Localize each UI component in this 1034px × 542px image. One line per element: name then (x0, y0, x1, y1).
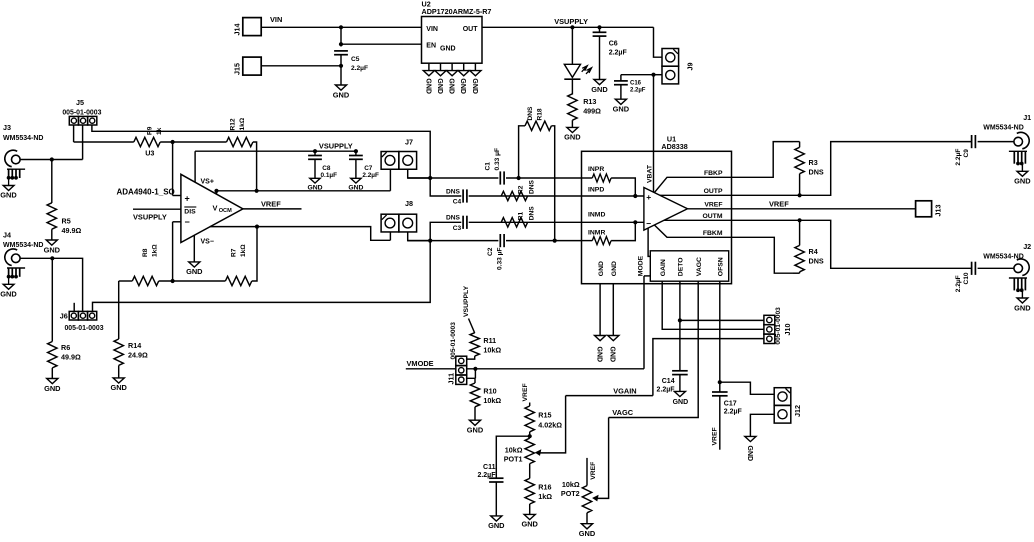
ground below C11 (491, 516, 502, 521)
wire GAIN to J10 pin2 (662, 281, 764, 329)
svg-text:R9: R9 (147, 126, 154, 135)
wire J9 pin2 to VBAT net (654, 74, 663, 76)
svg-text:INMD: INMD (588, 211, 605, 218)
connector J6 005-01-0003 (69, 311, 78, 320)
connector J13 (916, 201, 932, 217)
U1 pin VREF (688, 208, 732, 210)
wire MODE down to VMODE (643, 276, 645, 369)
svg-text:2.2µF: 2.2µF (477, 472, 496, 479)
capacitor C4 DNS (462, 189, 464, 202)
svg-text:MODE: MODE (638, 255, 645, 276)
svg-text:R1: R1 (517, 212, 524, 221)
svg-text:R4: R4 (809, 247, 818, 256)
svg-text:005-01-0003: 005-01-0003 (450, 322, 457, 360)
wire R12 to VOCM (253, 142, 257, 191)
svg-text:V: V (213, 203, 218, 212)
svg-text:J10: J10 (783, 324, 792, 336)
resistor R15 4.02kohm (529, 403, 531, 407)
svg-text:VREF: VREF (769, 200, 789, 209)
wire J7 pin1 to VOCM (389, 170, 391, 191)
wire VREF to J13 (732, 208, 916, 210)
svg-text:2.2µF: 2.2µF (955, 275, 962, 292)
U1 internal amp triangle (644, 188, 688, 231)
wire J4 to J6 (20, 258, 83, 311)
node R7/feedback junction (255, 225, 259, 229)
wire R7 to feedback node (252, 227, 257, 281)
svg-text:AD8338: AD8338 (661, 142, 687, 151)
VGA U1 AD8338 (582, 151, 732, 283)
node R18 left junction (517, 176, 521, 180)
node C7 junction (354, 149, 358, 153)
svg-text:J14: J14 (233, 24, 242, 36)
svg-text:R14: R14 (128, 341, 141, 350)
svg-text:R16: R16 (538, 482, 551, 491)
resistor R10 10kohm (470, 383, 479, 407)
node R18 right junction (553, 239, 557, 243)
connector J9 (662, 49, 679, 67)
svg-text:GND: GND (1014, 303, 1031, 312)
svg-text:C3: C3 (453, 225, 462, 232)
svg-text:VBAT: VBAT (646, 164, 653, 183)
wire VBAT down to U1 (653, 75, 655, 152)
svg-text:GND: GND (333, 90, 350, 99)
svg-text:GND: GND (673, 399, 689, 406)
capacitor C2 0.33uF (499, 234, 501, 247)
svg-text:C17: C17 (724, 400, 737, 407)
wire to op-amp +input (172, 142, 174, 196)
svg-text:1kΩ: 1kΩ (538, 492, 552, 501)
svg-text:R3: R3 (809, 158, 818, 167)
wire J5 pin2 to J3 line (82, 125, 84, 160)
svg-text:GND: GND (44, 384, 61, 393)
svg-text:VREF: VREF (704, 202, 722, 209)
connector J7 (381, 152, 399, 170)
svg-text:C2: C2 (487, 247, 494, 256)
resistor R1 DNS (501, 218, 527, 227)
svg-text:GND: GND (609, 347, 616, 363)
node VSUPPLY-C6 junction (597, 25, 601, 29)
svg-text:C9: C9 (963, 149, 970, 158)
wire VMODE line (406, 368, 457, 370)
node INMR select junction (428, 239, 432, 243)
svg-text:1k: 1k (156, 127, 163, 135)
svg-text:INMR: INMR (588, 230, 605, 237)
svg-text:2.2µF: 2.2µF (351, 65, 368, 72)
wire J8 pin2 to INMR (408, 232, 431, 240)
svg-text:0.33 µF: 0.33 µF (496, 248, 503, 271)
svg-text:DNS: DNS (527, 106, 534, 121)
node VMODE/R10 junction (473, 367, 477, 371)
node J3/R5 junction (50, 157, 54, 161)
svg-text:J13: J13 (934, 205, 943, 217)
U1 GND pin wires (599, 284, 601, 336)
ground below C7 (351, 178, 361, 183)
wire INPR line (408, 177, 499, 179)
svg-text:GND: GND (746, 446, 753, 462)
svg-text:10kΩ: 10kΩ (562, 480, 580, 489)
svg-text:VREF: VREF (712, 427, 719, 445)
svg-text:2.2µF: 2.2µF (657, 387, 676, 394)
svg-text:J2: J2 (1023, 242, 1031, 251)
svg-text:ADP1720ARMZ-5-R7: ADP1720ARMZ-5-R7 (422, 7, 492, 16)
ground below C16 (615, 99, 626, 104)
ground below R14 (113, 378, 124, 383)
wire OFSN down (719, 281, 721, 392)
svg-text:FBKP: FBKP (704, 170, 723, 177)
resistor R4 DNS (793, 272, 800, 274)
resistor R13 499ohm (568, 94, 577, 120)
svg-text:1kΩ: 1kΩ (239, 117, 246, 130)
regulator U2 ADP1720ARMZ-5-R7 (422, 17, 483, 64)
svg-text:C16: C16 (630, 81, 642, 87)
svg-text:GND: GND (596, 347, 603, 363)
svg-text:−: − (185, 217, 190, 227)
svg-text:GND: GND (579, 529, 596, 538)
svg-text:J5: J5 (76, 98, 84, 107)
svg-text:10kΩ: 10kΩ (483, 396, 501, 405)
svg-text:GND: GND (467, 426, 484, 435)
node DETO/J10 junction (678, 318, 682, 322)
connector J12 (774, 388, 791, 406)
capacitor C11 2.2uF (496, 436, 529, 478)
resistor R9 1k (U3) (134, 137, 160, 146)
svg-text:EN: EN (426, 43, 436, 50)
svg-text:49.9Ω: 49.9Ω (62, 226, 82, 235)
svg-text:U3: U3 (145, 148, 154, 157)
svg-text:C10: C10 (963, 272, 970, 284)
wire VREF output stub (243, 208, 302, 210)
node J9/C16/VBAT junction (651, 73, 655, 77)
svg-text:OUTP: OUTP (704, 188, 723, 195)
svg-text:INPR: INPR (588, 166, 604, 173)
svg-text:GND: GND (613, 105, 630, 114)
wire R9/R12 input line (74, 141, 134, 143)
svg-text:R13: R13 (583, 97, 596, 106)
op-amp U3 ADA4940-1_SO (181, 174, 243, 242)
svg-text:POT1: POT1 (504, 455, 523, 464)
svg-text:R18: R18 (536, 108, 543, 120)
wire OFSN to J12 pin1 (720, 382, 774, 394)
U1 pin VBAT (653, 151, 655, 192)
svg-text:GND: GND (591, 85, 608, 94)
svg-text:GND: GND (424, 78, 431, 94)
svg-text:005-01-0003: 005-01-0003 (64, 325, 103, 332)
svg-text:J9: J9 (686, 63, 695, 71)
svg-text:ADA4940-1_SO: ADA4940-1_SO (117, 187, 175, 196)
node -in junction (171, 279, 175, 283)
svg-text:2.2µF: 2.2µF (955, 149, 962, 166)
svg-text:DNS: DNS (529, 206, 536, 221)
svg-text:1kΩ: 1kΩ (151, 244, 158, 257)
capacitor C1 0.33uF (499, 171, 501, 184)
resistor R2 DNS (501, 191, 527, 200)
wire J8 pin1 to feedback (389, 232, 391, 240)
svg-text:C11: C11 (483, 464, 496, 471)
U1 pin OUTM (664, 219, 732, 221)
wire J5 pin1 to R9 (73, 125, 75, 142)
svg-text:005-01-0003: 005-01-0003 (775, 307, 782, 345)
svg-text:VIN: VIN (426, 26, 438, 33)
svg-text:GND: GND (0, 289, 17, 298)
svg-text:24.9Ω: 24.9Ω (128, 351, 148, 360)
potentiometer POT2 10kohm (586, 458, 588, 486)
svg-text:GND: GND (44, 245, 61, 254)
resistor R6 49.9ohm (51, 258, 53, 341)
svg-text:1kΩ: 1kΩ (240, 244, 247, 257)
connector J10 005-01-0003 (764, 315, 775, 324)
svg-text:OUT: OUT (463, 26, 479, 33)
svg-text:−: − (646, 218, 651, 228)
capacitor C3 DNS (462, 216, 464, 229)
svg-text:005-01-0003: 005-01-0003 (62, 109, 101, 116)
resistor R5 49.9ohm (51, 160, 53, 204)
wire J11 pin3 to R10 (467, 378, 475, 383)
svg-text:J8: J8 (405, 199, 413, 208)
svg-text:GND: GND (440, 46, 456, 53)
svg-text:2.2µF: 2.2µF (609, 50, 628, 57)
svg-text:VSUPPLY: VSUPPLY (554, 17, 588, 26)
ground below J12 (745, 436, 756, 441)
node VOCM pin (214, 189, 218, 193)
wire to J9 pin1 (654, 27, 663, 57)
node +in junction (171, 140, 175, 144)
wire DETO to J10 pin1 (680, 319, 764, 321)
resistor R18 DNS (519, 126, 525, 178)
wire J7 pin2 to INPR (408, 170, 431, 178)
svg-text:C1: C1 (485, 162, 492, 171)
wire -output feedback (210, 227, 391, 241)
svg-text:GND: GND (448, 78, 455, 94)
wire VOCM line (217, 190, 391, 192)
ground below C5 (335, 85, 346, 90)
svg-text:VS−: VS− (201, 239, 214, 246)
svg-text:R6: R6 (61, 343, 70, 352)
svg-text:DNS: DNS (809, 168, 824, 177)
svg-text:GND: GND (471, 78, 478, 94)
svg-text:WM5534-ND: WM5534-ND (3, 135, 43, 142)
svg-text:R15: R15 (538, 411, 551, 420)
svg-text:GND: GND (564, 133, 581, 142)
svg-text:VMODE: VMODE (407, 359, 434, 368)
resistor R11 10kohm (469, 319, 475, 334)
wire to op-amp -input (172, 222, 174, 281)
wire VSUPPLY from U2 OUT (482, 26, 654, 28)
resistor R8 1kohm (132, 276, 158, 285)
svg-text:VAGC: VAGC (696, 257, 703, 276)
svg-text:VAGC: VAGC (612, 408, 633, 417)
wire J15 to C5 (261, 65, 341, 67)
svg-text:0.1µF: 0.1µF (321, 172, 338, 179)
svg-text:GND: GND (521, 520, 538, 529)
wire VIN J14 to U2 (261, 26, 421, 28)
svg-text:R5: R5 (62, 217, 71, 226)
connector J5 005-01-0003 (69, 116, 78, 125)
capacitor C17 2.2uF (712, 391, 728, 393)
svg-text:C14: C14 (662, 378, 675, 385)
wire R8/R7 feedback line (119, 280, 133, 282)
svg-text:GND: GND (436, 78, 443, 94)
wire INMD line (430, 222, 461, 240)
svg-text:GND: GND (598, 261, 605, 276)
svg-text:J3: J3 (3, 123, 11, 132)
capacitor C14 2.2uF (672, 370, 688, 372)
capacitor C6 2.2uF (599, 27, 601, 32)
node C8 junction (313, 149, 317, 153)
svg-text:DNS: DNS (446, 188, 461, 195)
resistor R12 1kohm (227, 137, 253, 146)
wire INMR line (408, 240, 499, 242)
svg-text:GND: GND (0, 191, 17, 200)
node R15/POT1/C11 junction (528, 434, 532, 438)
wire OUTP to C9 (732, 142, 972, 196)
resistor R16 1kohm (529, 464, 531, 479)
capacitor C8 0.1uF (314, 151, 316, 155)
svg-text:+: + (185, 194, 190, 204)
svg-text:4.02kΩ: 4.02kΩ (538, 420, 562, 429)
svg-text:DETO: DETO (678, 257, 685, 276)
node R4/OUTM junction (798, 218, 802, 222)
svg-text:10kΩ: 10kΩ (483, 346, 501, 355)
ground below R10 (469, 420, 480, 425)
potentiometer POT1 10kohm (525, 438, 534, 463)
svg-text:C6: C6 (609, 41, 618, 48)
svg-text:J4: J4 (3, 231, 11, 240)
wire J12 pin2 to ground (750, 414, 774, 436)
ground below C14 (674, 391, 685, 396)
capacitor C10 2.2uF (971, 262, 973, 275)
svg-text:GND: GND (110, 383, 127, 392)
ground below POT2 (581, 524, 592, 529)
svg-text:J15: J15 (233, 63, 242, 75)
svg-text:R10: R10 (483, 386, 496, 395)
node OFSN/C17 junction (718, 380, 722, 384)
node EN junction (339, 42, 343, 46)
svg-text:VREF: VREF (522, 383, 529, 401)
svg-text:R7: R7 (230, 248, 237, 257)
svg-text:VIN: VIN (270, 15, 282, 24)
svg-text:DNS: DNS (809, 257, 824, 266)
svg-text:GAIN: GAIN (660, 259, 667, 276)
capacitor C9 2.2uF (971, 135, 973, 148)
connector J15 (243, 57, 261, 75)
svg-text:OFSN: OFSN (718, 257, 725, 276)
svg-text:DNS: DNS (446, 215, 461, 222)
svg-text:2.2µF: 2.2µF (362, 172, 379, 179)
svg-text:WM5534-ND: WM5534-ND (983, 125, 1023, 132)
wire VS+ to supply rail (194, 151, 196, 182)
connector J14 (243, 18, 261, 36)
svg-text:GND: GND (1014, 177, 1031, 186)
node VIN junction (339, 25, 343, 29)
wire J5 pin3 to INPR select (92, 125, 430, 178)
U1 pin FBKM (654, 225, 731, 237)
svg-text:DIS: DIS (184, 208, 196, 215)
capacitor C16 2.2uF (621, 74, 654, 76)
node INPR select junction (428, 176, 432, 180)
svg-text:R11: R11 (483, 336, 496, 345)
U1 pin OUTP (660, 194, 732, 196)
resistor R7 1kohm (225, 276, 251, 285)
ground below R13 (567, 127, 578, 132)
svg-text:J11: J11 (447, 373, 456, 385)
J6 pin1 stub (73, 303, 75, 312)
U1 internal control box (650, 251, 728, 281)
svg-text:VSUPPLY: VSUPPLY (133, 213, 167, 222)
svg-text:49.9Ω: 49.9Ω (61, 353, 81, 362)
svg-text:R8: R8 (142, 248, 149, 257)
svg-text:GND: GND (459, 78, 466, 94)
node J4/R6 junction (50, 256, 54, 260)
LED D1 (571, 27, 573, 64)
ground below R6 (47, 379, 58, 384)
svg-text:+: + (646, 192, 651, 202)
ground below R16 (524, 514, 535, 519)
svg-text:10kΩ: 10kΩ (505, 446, 523, 455)
node R3/OUTP junction (798, 193, 802, 197)
wire DETO down (679, 281, 681, 371)
resistor R14 24.9ohm (118, 281, 120, 339)
ground below C6 (594, 80, 605, 85)
node C5/J15 junction (339, 64, 343, 68)
capacitor C7 2.2uF (355, 151, 357, 155)
svg-text:R12: R12 (229, 118, 236, 130)
svg-text:VGAIN: VGAIN (613, 386, 636, 395)
U1 pin FBKP (654, 177, 731, 192)
svg-text:J7: J7 (405, 137, 413, 146)
wire J3 to J5 (20, 159, 83, 161)
wire INPD line (430, 178, 461, 196)
node VSUPPLY-LED junction (570, 25, 574, 29)
svg-text:OCM: OCM (219, 208, 232, 214)
svg-text:VREF: VREF (590, 462, 597, 480)
svg-text:DNS: DNS (529, 179, 536, 194)
svg-text:2.2µF: 2.2µF (724, 409, 743, 416)
svg-text:0.33 µF: 0.33 µF (494, 148, 501, 171)
svg-text:GND: GND (488, 521, 505, 530)
svg-text:499Ω: 499Ω (583, 107, 601, 116)
connector J11 005-01-0003 (456, 356, 467, 365)
svg-text:GND: GND (186, 267, 203, 276)
svg-text:VREF: VREF (261, 199, 281, 208)
svg-text:VS+: VS+ (201, 178, 214, 185)
svg-text:J12: J12 (793, 405, 802, 417)
capacitor C5 2.2uF (334, 50, 348, 52)
wire FBKP to R3 (732, 142, 794, 178)
wire DIS input VSUPPLY (133, 208, 181, 210)
svg-text:VSUPPLY: VSUPPLY (319, 141, 353, 150)
node INPD/INPR junction (633, 194, 637, 198)
ground below VS- (189, 262, 200, 267)
svg-text:C4: C4 (453, 199, 462, 206)
svg-text:POT2: POT2 (561, 489, 580, 498)
ground below C8 (310, 178, 320, 183)
wire J6 pin3 to INMR select (93, 241, 431, 312)
svg-text:INPD: INPD (588, 186, 604, 193)
svg-text:R2: R2 (517, 185, 524, 194)
svg-text:2.2µF: 2.2µF (630, 88, 646, 94)
resistor R3 DNS (793, 141, 800, 143)
svg-text:C5: C5 (351, 56, 360, 63)
svg-text:J6: J6 (60, 311, 68, 320)
svg-text:VSUPPLY: VSUPPLY (463, 285, 470, 317)
node INMD/INMR junction (633, 220, 637, 224)
wire VGAIN to J10 pin3 (653, 339, 764, 396)
svg-text:GND: GND (611, 261, 618, 276)
svg-text:WM5534-ND: WM5534-ND (3, 242, 43, 249)
wire VAGC pin down (609, 281, 699, 417)
connector J8 (381, 214, 399, 232)
svg-text:FBKM: FBKM (703, 230, 723, 237)
